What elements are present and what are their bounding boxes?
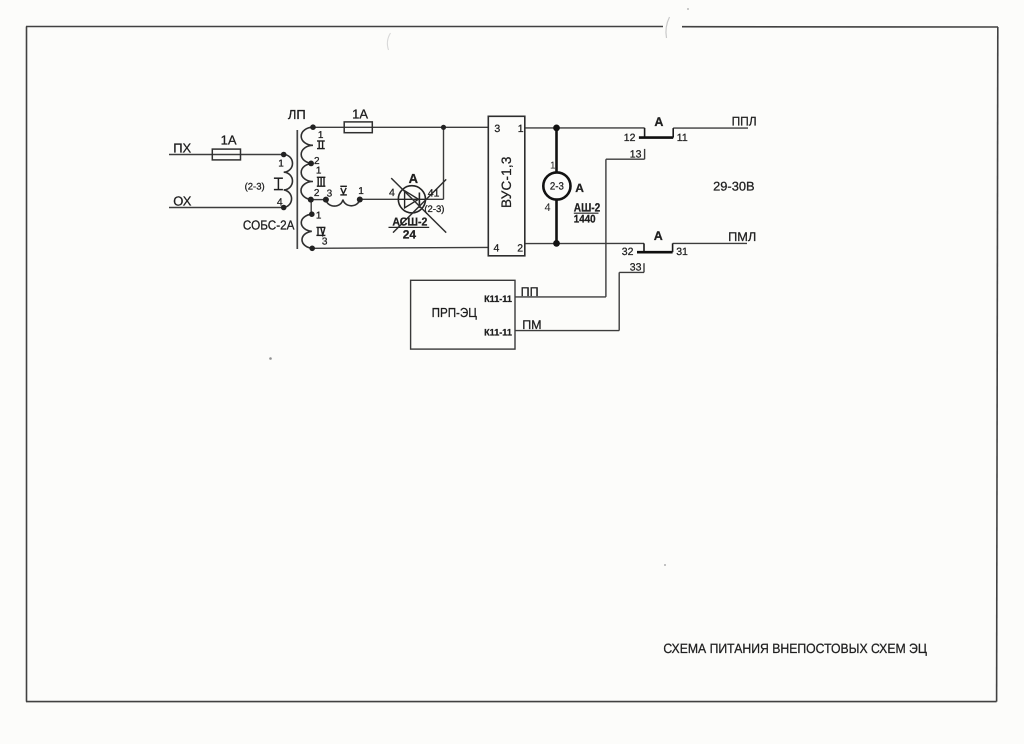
winding IV (2 bumps) bbox=[301, 214, 312, 248]
wire through fuse FU1 to winding I pin 1 bbox=[212, 154, 283, 156]
node: winding II pin 1 bbox=[310, 124, 316, 130]
svg-text:4: 4 bbox=[494, 243, 500, 255]
svg-text:А: А bbox=[654, 229, 663, 243]
svg-text:3: 3 bbox=[322, 236, 328, 247]
svg-text:А: А bbox=[654, 115, 663, 129]
wire: winding III pin2 junction to winding V pin3 bbox=[311, 199, 326, 201]
wire: diode circle right to vertical branch bbox=[426, 198, 444, 200]
ammeter РА АШ-2 circle bbox=[543, 172, 570, 199]
svg-text:2-3: 2-3 bbox=[550, 181, 564, 193]
svg-text:31: 31 bbox=[676, 246, 688, 258]
wire ПП from ПРП-ЭЦ block bbox=[515, 296, 606, 298]
node: winding IV pin 1 bbox=[309, 211, 315, 217]
svg-text:4: 4 bbox=[545, 202, 551, 214]
svg-text:ПМ: ПМ bbox=[522, 318, 541, 332]
node: winding IV pin 3 bbox=[309, 246, 315, 252]
wire ПХ input bbox=[169, 154, 212, 156]
wire ВУС pin1 to contact 12 bbox=[525, 127, 645, 129]
wire ВУС pin2 to contact 32 bbox=[525, 242, 644, 244]
node: winding V pin 3 bbox=[323, 197, 329, 203]
svg-text:32: 32 bbox=[622, 246, 634, 258]
fraction bar bbox=[574, 212, 599, 214]
svg-text:1: 1 bbox=[278, 158, 284, 169]
svg-text:АШ-2: АШ-2 bbox=[574, 201, 601, 215]
wire vertical down to ПМ bbox=[618, 272, 620, 330]
svg-text:ПХ: ПХ bbox=[173, 141, 191, 156]
svg-text:29-30В: 29-30В bbox=[713, 179, 755, 193]
svg-text:4: 4 bbox=[277, 196, 283, 208]
winding III numeral bbox=[317, 177, 326, 186]
diode lead through circle bbox=[398, 198, 425, 200]
winding II numeral bbox=[317, 141, 325, 149]
fraction bar bbox=[389, 226, 430, 228]
ammeter РА АШ-2 thick leads bbox=[555, 128, 558, 173]
svg-text:3: 3 bbox=[327, 188, 333, 199]
node: bottom meter junction bbox=[553, 240, 560, 247]
svg-text:1: 1 bbox=[318, 130, 324, 141]
svg-text:1: 1 bbox=[518, 123, 524, 135]
svg-text:2: 2 bbox=[314, 188, 320, 199]
svg-text:А: А bbox=[575, 181, 584, 195]
fuse FU1 1А bbox=[212, 149, 240, 160]
wire from tick 13 left bbox=[606, 158, 645, 160]
terminal tick 33 bbox=[643, 263, 645, 272]
node: winding I pin 4 bbox=[281, 205, 287, 211]
svg-text:1А: 1А bbox=[221, 133, 237, 148]
svg-text:11: 11 bbox=[677, 132, 688, 144]
svg-text:1: 1 bbox=[316, 211, 322, 222]
block ПРП-ЭЦ bbox=[411, 280, 515, 349]
winding I numeral bbox=[274, 178, 283, 189]
wire contact 31 to ПМЛ bbox=[673, 242, 747, 244]
diode VD (АСШ-2/24) circle bbox=[398, 186, 425, 213]
svg-text:ПП: ПП bbox=[521, 285, 539, 299]
bottom wire: winding IV pin3 to ВУС pin4 bbox=[312, 246, 488, 249]
terminal tick 13 bbox=[644, 149, 646, 159]
svg-text:1440: 1440 bbox=[574, 214, 596, 226]
svg-text:ПМЛ: ПМЛ bbox=[728, 230, 756, 244]
diode cathode bar bbox=[418, 193, 420, 208]
node: top meter junction bbox=[553, 125, 560, 132]
svg-text:1: 1 bbox=[358, 186, 364, 197]
svg-text:2: 2 bbox=[517, 243, 523, 255]
svg-text:К11-11: К11-11 bbox=[484, 328, 512, 339]
svg-text:41: 41 bbox=[428, 188, 440, 200]
faint scan crease marks (decorative) bbox=[666, 17, 670, 38]
wire ОХ input to winding I pin 4 bbox=[169, 207, 284, 209]
svg-text:33: 33 bbox=[630, 261, 642, 273]
svg-text:1: 1 bbox=[550, 160, 556, 171]
node: top wire / diode branch junction bbox=[441, 125, 446, 130]
svg-text:(2-3): (2-3) bbox=[424, 204, 444, 215]
block U1 name ВУС-1,3 (rotated) bbox=[500, 160, 514, 208]
winding V numeral bbox=[340, 186, 347, 195]
strike-out diagonal \ over diode bbox=[391, 178, 446, 233]
strike-out diagonal / over diode bbox=[393, 179, 446, 232]
transformer ТР СОБС-2А core bbox=[296, 130, 298, 249]
winding II (2 bumps) and winding III (2 bumps), continuous bbox=[301, 127, 313, 199]
winding I (primary) bbox=[284, 155, 293, 208]
relay contact А (32-31) bbox=[643, 243, 645, 252]
svg-text:24: 24 bbox=[403, 227, 417, 241]
svg-text:(2-3): (2-3) bbox=[245, 181, 265, 192]
svg-text:12: 12 bbox=[624, 132, 636, 144]
svg-text:ОХ: ОХ bbox=[173, 194, 192, 209]
diode triangle bbox=[405, 191, 419, 208]
svg-text:А: А bbox=[409, 171, 419, 186]
svg-text:ЛП: ЛП bbox=[288, 107, 306, 122]
node: winding I pin 1 bbox=[281, 152, 287, 158]
wire from tick 33 left bbox=[619, 271, 644, 273]
node: winding II pin 2 / III pin 1 bbox=[308, 161, 314, 167]
svg-text:СОБС-2А: СОБС-2А bbox=[243, 217, 295, 232]
fuse FU2 1А bbox=[344, 122, 372, 133]
svg-text:ППЛ: ППЛ bbox=[732, 115, 757, 129]
wire: junction down to winding IV pin1 bbox=[310, 200, 312, 215]
svg-text:К11-11: К11-11 bbox=[484, 294, 512, 305]
svg-text:3: 3 bbox=[494, 123, 500, 135]
wire ПМ from ПРП-ЭЦ block bbox=[515, 330, 619, 332]
top wire: winding II pin1 to ВУС pin3 (through fuse FU2) bbox=[313, 126, 488, 128]
svg-text:1А: 1А bbox=[352, 106, 368, 121]
node: winding III pin 2 junction bbox=[308, 197, 314, 203]
winding IV numeral bbox=[316, 227, 325, 235]
block U1 ВУС-1,3 bbox=[488, 116, 525, 256]
svg-text:13: 13 bbox=[630, 148, 642, 160]
svg-text:4: 4 bbox=[389, 187, 395, 199]
wire contact 11 to ППЛ bbox=[673, 127, 748, 129]
wire: vertical branch up to top wire junction bbox=[443, 127, 445, 199]
wire: winding V pin1 to diode circle bbox=[360, 198, 399, 200]
node: winding V pin 1 bbox=[357, 197, 363, 203]
winding V (2 bumps, horizontal) bbox=[326, 200, 360, 206]
svg-text:СХЕМА ПИТАНИЯ ВНЕПОСТОВЫХ СХЕМ: СХЕМА ПИТАНИЯ ВНЕПОСТОВЫХ СХЕМ ЭЦ bbox=[663, 641, 927, 656]
svg-text:ПРП-ЭЦ: ПРП-ЭЦ bbox=[432, 305, 478, 320]
relay contact А (12-11) bbox=[644, 128, 646, 138]
wire vertical down to ПП bbox=[605, 159, 607, 297]
svg-text:1: 1 bbox=[316, 165, 322, 176]
